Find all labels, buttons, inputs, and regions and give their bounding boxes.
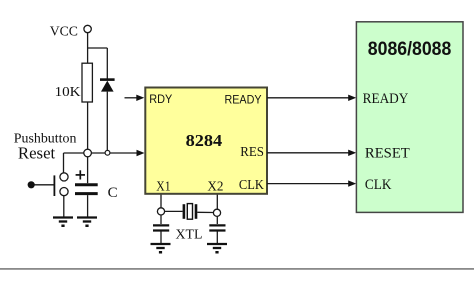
svg-text:VCC: VCC: [50, 24, 78, 39]
wire X1 cap to ground: [160, 232, 162, 244]
capacitor C plus sign: [76, 170, 85, 179]
wire X2 pin: [216, 195, 218, 210]
wire pushbutton to ground: [63, 196, 65, 217]
node X2 circle: [213, 209, 220, 216]
wire CLK 8284 to 8086: [267, 183, 351, 185]
capacitor X1 top plate: [153, 224, 169, 226]
wire X1 pin: [160, 195, 162, 208]
wire pushbutton riser: [63, 153, 65, 173]
ground pushbutton: [53, 218, 73, 228]
crystal XTL left plate: [183, 204, 186, 219]
ground X2: [207, 244, 227, 254]
svg-text:10K: 10K: [55, 85, 81, 100]
pushbutton stem: [35, 184, 54, 186]
svg-text:Reset: Reset: [18, 144, 56, 163]
wire X1 to crystal: [165, 210, 183, 212]
wire diode branch vertical: [106, 48, 108, 79]
wire resistor to junction: [87, 102, 89, 153]
svg-text:8284: 8284: [186, 131, 223, 150]
node diode circle: [105, 150, 110, 155]
svg-text:RES: RES: [240, 145, 264, 160]
svg-text:READY: READY: [363, 91, 409, 107]
svg-text:CLK: CLK: [239, 178, 264, 193]
pushbutton bar: [53, 175, 55, 196]
wire X2 cap to ground: [216, 232, 218, 244]
pushbutton SW1 actuator dot: [28, 181, 35, 188]
node X1 circle: [157, 208, 164, 215]
capacitor C top plate: [75, 183, 98, 186]
wire capacitor to ground: [87, 195, 89, 217]
diode D1 triangle: [101, 81, 114, 92]
op IC U1 8284 body: [145, 88, 267, 194]
crystal XTL body: [187, 204, 192, 220]
IC U2 8086/8088 body: [356, 22, 463, 213]
wire crystal to X2: [197, 211, 213, 213]
pushbutton bottom contact: [60, 188, 68, 196]
svg-text:XTL: XTL: [176, 228, 203, 243]
wire X1 node to cap: [160, 215, 162, 224]
svg-text:RESET: RESET: [365, 146, 410, 162]
svg-text:C: C: [108, 185, 118, 201]
capacitor X2 bottom plate: [209, 229, 225, 231]
wire reset horizontal to 8284: [64, 152, 140, 154]
capacitor C bottom plate: [75, 192, 98, 195]
ground X1: [151, 244, 171, 254]
svg-text:X2: X2: [207, 179, 223, 194]
wire READY 8284 to 8086: [267, 97, 351, 99]
svg-text:8086/8088: 8086/8088: [368, 39, 452, 60]
diode D1 cathode bar: [100, 78, 115, 81]
wire diode to reset line: [106, 92, 108, 151]
svg-text:READY: READY: [225, 94, 262, 106]
wire X2 node to cap: [216, 216, 218, 224]
node junction circle: [84, 149, 92, 157]
wire VCC branch horizontal: [88, 47, 108, 49]
capacitor X2 top plate: [209, 224, 225, 226]
resistor R1 10K: [82, 63, 92, 102]
crystal XTL right plate: [195, 204, 198, 219]
wire junction to capacitor: [87, 157, 89, 183]
svg-text:RDY: RDY: [149, 94, 172, 106]
VCC terminal circle: [84, 25, 91, 32]
wire RES 8284 to 8086: [267, 152, 351, 154]
svg-text:CLK: CLK: [365, 177, 392, 193]
wire VCC vertical: [87, 33, 89, 63]
bottom slide rule: [0, 268, 474, 270]
arrow RDY input: [125, 97, 139, 99]
arrowhead RES input: [137, 150, 145, 156]
ground capacitor C: [77, 218, 97, 228]
svg-text:X1: X1: [156, 179, 170, 194]
capacitor X1 bottom plate: [153, 229, 169, 231]
pushbutton top contact: [60, 173, 68, 181]
